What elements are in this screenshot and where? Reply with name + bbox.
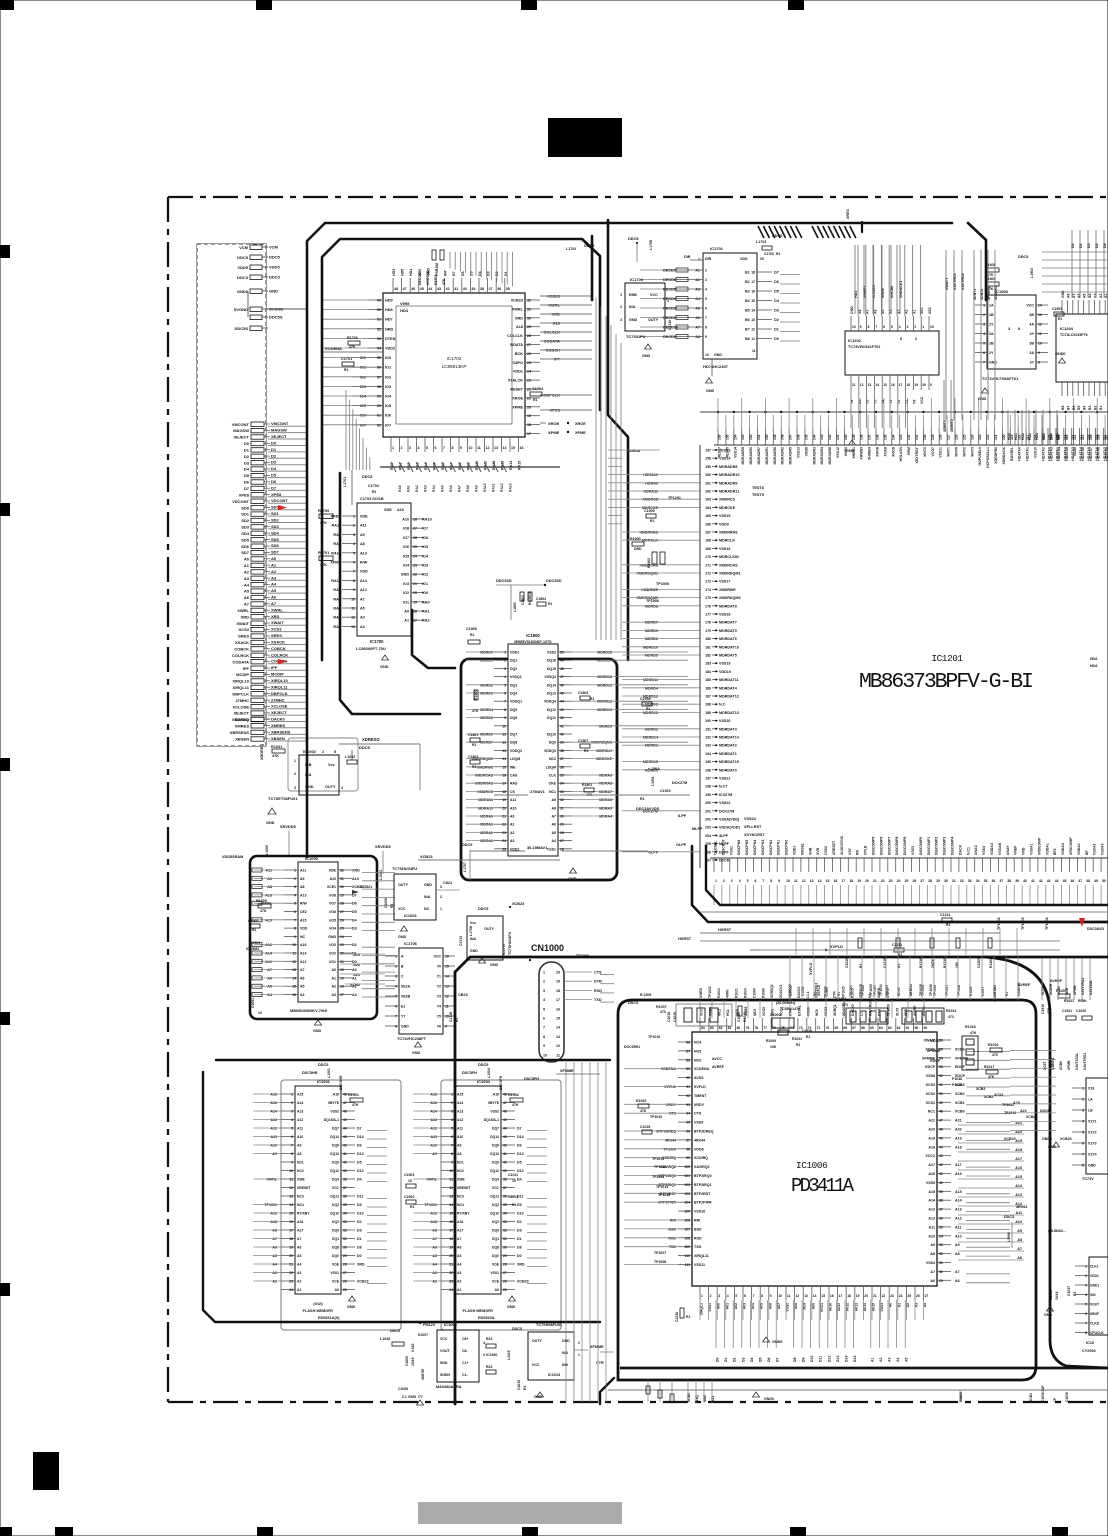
svg-text:XDE: XDE xyxy=(384,508,392,512)
svg-text:IO7: IO7 xyxy=(385,423,391,427)
svg-text:11: 11 xyxy=(351,607,355,611)
connector pin IPF xyxy=(243,665,306,671)
svg-text:HD2: HD2 xyxy=(1021,433,1025,440)
svg-text:A18: A18 xyxy=(1015,1148,1022,1152)
svg-text:XPLLRST: XPLLRST xyxy=(744,825,762,829)
svg-text:124: 124 xyxy=(970,434,974,440)
svg-text:VDD5: VDD5 xyxy=(237,265,248,270)
svg-text:XPME: XPME xyxy=(548,430,560,435)
svg-text:R1: R1 xyxy=(806,1035,810,1039)
svg-text:GND: GND xyxy=(850,306,854,314)
svg-text:I/O1: I/O1 xyxy=(329,960,336,964)
svg-text:18: 18 xyxy=(340,985,344,989)
svg-text:A2: A2 xyxy=(271,569,277,574)
svg-text:R1: R1 xyxy=(1073,1292,1077,1296)
svg-text:C1921: C1921 xyxy=(1062,1009,1072,1013)
svg-text:XCS3: XCS3 xyxy=(271,627,282,632)
svg-text:50: 50 xyxy=(560,651,564,655)
C1251 capacitor xyxy=(1052,307,1064,321)
svg-text:43: 43 xyxy=(560,708,564,712)
svg-text:A7: A7 xyxy=(297,1237,301,1241)
svg-text:MLPF: MLPF xyxy=(692,827,703,831)
svg-text:HOPU5EL0: HOPU5EL0 xyxy=(978,447,982,466)
svg-text:XCE: XCE xyxy=(492,1280,500,1284)
connector pin XIRQL10 xyxy=(232,678,306,684)
svg-text:A3: A3 xyxy=(352,993,357,997)
svg-text:47K: 47K xyxy=(512,1103,519,1107)
svg-text:35: 35 xyxy=(343,1203,347,1207)
svg-text:42: 42 xyxy=(503,1144,507,1148)
svg-text:2: 2 xyxy=(723,879,725,883)
svg-text:21: 21 xyxy=(449,1263,453,1267)
C1230 capacitor xyxy=(675,1308,690,1322)
svg-text:A6: A6 xyxy=(457,1246,461,1250)
svg-text:TP1204: TP1204 xyxy=(1045,917,1049,930)
C1801 capacitor xyxy=(468,733,480,747)
bus outline IC1702 right xyxy=(592,220,628,660)
svg-text:A9: A9 xyxy=(300,877,305,881)
svg-text:VCC: VCC xyxy=(440,1337,448,1341)
svg-text:MDRA6: MDRA6 xyxy=(599,798,612,802)
bus outline IC1700 drop xyxy=(340,473,455,714)
svg-text:DQ2: DQ2 xyxy=(492,1220,499,1224)
svg-text:195: 195 xyxy=(705,760,711,764)
svg-text:A13: A13 xyxy=(300,893,306,897)
svg-text:4: 4 xyxy=(543,998,545,1002)
svg-text:MDRA4: MDRA4 xyxy=(599,815,612,819)
crystal X1000 xyxy=(766,1001,812,1049)
svg-text:GND0: GND0 xyxy=(772,1340,783,1344)
svg-text:11: 11 xyxy=(556,1053,560,1057)
svg-text:A10: A10 xyxy=(297,1135,303,1139)
svg-text:A14: A14 xyxy=(928,1199,935,1203)
svg-text:29: 29 xyxy=(527,325,531,329)
svg-text:GND0: GND0 xyxy=(764,1397,774,1401)
svg-text:XFMME: XFMME xyxy=(560,1069,574,1073)
svg-text:15: 15 xyxy=(502,765,506,769)
svg-text:5: 5 xyxy=(334,750,336,754)
svg-text:7: 7 xyxy=(443,446,445,450)
svg-text:R1009: R1009 xyxy=(766,1039,776,1043)
svg-text:DISCOMP2: DISCOMP2 xyxy=(935,837,939,855)
svg-text:GND: GND xyxy=(401,573,410,577)
svg-text:118: 118 xyxy=(1071,435,1075,440)
svg-text:20: 20 xyxy=(865,879,869,883)
svg-text:A0: A0 xyxy=(360,616,365,620)
svg-text:49: 49 xyxy=(939,1101,943,1105)
svg-text:51: 51 xyxy=(377,318,381,322)
svg-text:29: 29 xyxy=(560,823,564,827)
svg-text:B4: B4 xyxy=(745,299,750,303)
svg-text:8: 8 xyxy=(900,337,902,341)
svg-text:25: 25 xyxy=(905,879,909,883)
svg-text:L1004: L1004 xyxy=(487,1068,491,1078)
svg-text:IC1700: IC1700 xyxy=(370,639,384,644)
svg-text:XDRQ1: XDRQ1 xyxy=(833,1004,837,1016)
svg-text:GND: GND xyxy=(846,449,855,453)
svg-text:42: 42 xyxy=(446,287,450,291)
svg-text:TMENT: TMENT xyxy=(694,1094,707,1098)
svg-text:XAV1SGL: XAV1SGL xyxy=(1089,980,1093,995)
svg-text:MDRA9: MDRA9 xyxy=(599,774,612,778)
svg-text:DQ15/A-1: DQ15/A-1 xyxy=(324,1118,339,1122)
svg-text:187: 187 xyxy=(705,695,711,699)
wire bundle top center xyxy=(854,245,903,314)
svg-text:IO4: IO4 xyxy=(385,395,392,399)
svg-text:XIDNT2: XIDNT2 xyxy=(950,419,954,432)
svg-text:45: 45 xyxy=(503,1118,507,1122)
connector pin D6 xyxy=(244,479,306,485)
svg-text:17: 17 xyxy=(340,993,344,997)
svg-text:VSS2: VSS2 xyxy=(824,846,828,855)
net XCB20 xyxy=(1004,1137,1052,1141)
svg-text:71: 71 xyxy=(817,1026,821,1030)
svg-text:A19: A19 xyxy=(270,1212,277,1216)
svg-text:39: 39 xyxy=(471,287,475,291)
svg-text:L1707: L1707 xyxy=(463,862,467,872)
svg-text:R1016: R1016 xyxy=(988,1043,998,1047)
svg-text:12: 12 xyxy=(502,741,506,745)
svg-text:10: 10 xyxy=(469,446,473,450)
svg-text:166: 166 xyxy=(705,522,711,526)
svg-text:TP1027: TP1027 xyxy=(873,985,877,996)
svg-text:XIN: XIN xyxy=(1090,1293,1096,1297)
connector pin MCDIP xyxy=(236,672,306,678)
svg-text:19: 19 xyxy=(340,976,344,980)
svg-text:A19: A19 xyxy=(1015,1139,1022,1143)
svg-text:MDRA7: MDRA7 xyxy=(599,790,612,794)
svg-text:A6: A6 xyxy=(955,1279,960,1283)
svg-text:24: 24 xyxy=(413,554,417,558)
wires HD bus xyxy=(1007,410,1060,445)
svg-text:16: 16 xyxy=(502,774,506,778)
svg-text:VDCONT: VDCONT xyxy=(232,499,249,504)
svg-text:VDD8: VDD8 xyxy=(804,447,808,456)
svg-text:A3: A3 xyxy=(432,1271,437,1275)
TP1202 label xyxy=(997,917,1049,930)
svg-text:202: 202 xyxy=(705,818,711,822)
svg-text:XCS3: XCS3 xyxy=(926,1083,935,1087)
svg-text:XFMME: XFMME xyxy=(590,1345,604,1349)
svg-text:13: 13 xyxy=(556,1035,560,1039)
svg-text:DQ8: DQ8 xyxy=(332,1246,339,1250)
svg-text:XIRQL11: XIRQL11 xyxy=(271,684,288,689)
svg-text:2: 2 xyxy=(705,269,707,273)
svg-text:RA3: RA3 xyxy=(424,485,428,492)
svg-text:41: 41 xyxy=(939,1172,943,1176)
svg-text:47: 47 xyxy=(1078,879,1082,883)
svg-text:DDC5FH: DDC5FH xyxy=(499,1075,503,1090)
black title block xyxy=(548,118,622,157)
svg-text:MDRCLK: MDRCLK xyxy=(719,539,735,543)
svg-text:DQ5: DQ5 xyxy=(510,708,517,712)
svg-text:46: 46 xyxy=(560,683,564,687)
wire bundle far right top xyxy=(1071,230,1107,298)
svg-text:DTR: DTR xyxy=(594,980,602,984)
svg-text:INA: INA xyxy=(470,937,477,941)
svg-text:VDDA4: VDDA4 xyxy=(1061,843,1065,855)
svg-text:DISCPN3: DISCPN3 xyxy=(761,840,765,855)
svg-text:TP1010: TP1010 xyxy=(648,1035,660,1039)
svg-text:XCB22: XCB22 xyxy=(357,1280,369,1284)
svg-text:173: 173 xyxy=(705,580,711,584)
svg-text:150: 150 xyxy=(765,434,769,440)
svg-text:7: 7 xyxy=(705,316,707,320)
svg-text:DVCD: DVCD xyxy=(719,859,730,863)
svg-text:MDRCLK: MDRCLK xyxy=(596,749,612,753)
svg-text:22: 22 xyxy=(882,1294,886,1298)
svg-text:DQ0: DQ0 xyxy=(492,1254,499,1258)
svg-text:D6: D6 xyxy=(271,479,277,484)
svg-text:148: 148 xyxy=(781,434,785,440)
svg-text:5: 5 xyxy=(1082,1131,1084,1135)
IC1704 TC7S02FU gate xyxy=(620,236,679,358)
svg-text:B2: B2 xyxy=(1093,406,1097,410)
vertical drop x862 xyxy=(861,222,863,232)
svg-text:A5: A5 xyxy=(457,1254,461,1258)
svg-text:27: 27 xyxy=(560,839,564,843)
R1701 resistor xyxy=(318,551,333,567)
svg-text:RA6: RA6 xyxy=(449,485,453,492)
svg-text:61: 61 xyxy=(377,414,381,418)
svg-text:IO1: IO1 xyxy=(360,366,366,370)
svg-text:D1: D1 xyxy=(1079,243,1083,248)
L1908 inductor xyxy=(1007,1222,1012,1248)
svg-text:MDRCLKIN: MDRCLKIN xyxy=(719,555,739,559)
svg-text:138: 138 xyxy=(860,434,864,440)
svg-text:12: 12 xyxy=(802,879,806,883)
svg-text:6: 6 xyxy=(744,1294,746,1298)
svg-text:9: 9 xyxy=(504,716,506,720)
svg-text:XRSCOMP: XRSCOMP xyxy=(1069,837,1073,855)
svg-text:R1: R1 xyxy=(650,519,654,523)
svg-text:DQ0: DQ0 xyxy=(332,1254,339,1258)
svg-text:SD5: SD5 xyxy=(241,537,250,542)
svg-text:E1: E1 xyxy=(401,1005,405,1009)
svg-text:9: 9 xyxy=(294,935,296,939)
svg-text:A7: A7 xyxy=(457,1237,461,1241)
svg-text:16: 16 xyxy=(751,290,755,294)
IC1010 CY2292 body xyxy=(1041,1229,1108,1402)
svg-text:MDRD7: MDRD7 xyxy=(645,621,658,625)
svg-text:GND: GND xyxy=(424,883,432,887)
svg-text:A15: A15 xyxy=(457,1093,463,1097)
svg-text:R1700: R1700 xyxy=(318,509,329,513)
svg-text:A2: A2 xyxy=(432,1280,437,1284)
svg-text:TP1019: TP1019 xyxy=(993,985,997,996)
svg-text:XCS1: XCS1 xyxy=(926,1101,935,1105)
svg-text:BCK: BCK xyxy=(515,352,523,356)
svg-text:40: 40 xyxy=(463,287,467,291)
svg-text:IO7: IO7 xyxy=(403,536,409,540)
svg-text:D9: D9 xyxy=(517,1229,522,1233)
svg-text:IO2: IO2 xyxy=(403,591,409,595)
connector pin XPE8 xyxy=(239,492,306,498)
svg-text:3: 3 xyxy=(1085,1284,1087,1288)
svg-text:OUTY: OUTY xyxy=(484,927,494,931)
svg-text:21: 21 xyxy=(527,396,531,400)
svg-text:A9: A9 xyxy=(930,1243,935,1247)
svg-text:NC4: NC4 xyxy=(457,1203,464,1207)
svg-text:A17: A17 xyxy=(297,1229,303,1233)
svg-text:186: 186 xyxy=(705,686,711,690)
svg-text:MDRD10: MDRD10 xyxy=(597,708,612,712)
svg-text:DISCPN0: DISCPN0 xyxy=(785,840,789,855)
svg-text:VDD9: VDD9 xyxy=(719,522,729,526)
svg-text:DQ7: DQ7 xyxy=(332,1127,339,1131)
svg-text:27MAV1: 27MAV1 xyxy=(530,789,546,794)
svg-text:10: 10 xyxy=(258,1011,262,1015)
svg-text:MDRCKE: MDRCKE xyxy=(719,506,736,510)
wire bundle right mid vertical xyxy=(1041,958,1093,1000)
svg-text:C1703 SO/1B: C1703 SO/1B xyxy=(360,497,384,501)
svg-text:XWAIT: XWAIT xyxy=(236,621,249,626)
svg-text:44: 44 xyxy=(503,1127,507,1131)
svg-text:CLK: CLK xyxy=(549,774,557,778)
svg-text:D2: D2 xyxy=(357,1220,362,1224)
svg-text:97: 97 xyxy=(686,1138,690,1142)
svg-text:5: 5 xyxy=(291,1127,293,1131)
svg-text:D3: D3 xyxy=(352,927,357,931)
svg-text:RXD: RXD xyxy=(668,1236,676,1240)
svg-text:38: 38 xyxy=(503,1178,507,1182)
svg-text:GND0: GND0 xyxy=(1042,1137,1052,1141)
svg-text:15: 15 xyxy=(445,965,449,969)
svg-text:RY/XBY: RY/XBY xyxy=(297,1212,310,1216)
svg-text:XHB: XHB xyxy=(808,847,812,855)
svg-text:17: 17 xyxy=(527,432,531,436)
svg-text:3B: 3B xyxy=(1029,342,1034,346)
svg-text:N.C: N.C xyxy=(719,703,726,707)
svg-text:GND: GND xyxy=(714,353,722,357)
svg-text:HXRST: HXRST xyxy=(718,927,732,932)
svg-text:1: 1 xyxy=(440,907,442,911)
svg-text:16: 16 xyxy=(289,1220,293,1224)
svg-text:VSSA(VDD): VSSA(VDD) xyxy=(719,818,740,822)
svg-text:19: 19 xyxy=(556,980,560,984)
svg-text:MDRA1: MDRA1 xyxy=(480,823,493,827)
svg-text:D2: D2 xyxy=(271,453,277,458)
svg-text:XAVIRQ2: XAVIRQ2 xyxy=(694,1165,710,1169)
svg-text:XCE1: XCE1 xyxy=(327,885,336,889)
flash memory IC1004 ring xyxy=(441,1080,561,1330)
svg-text:1B: 1B xyxy=(989,313,994,317)
svg-text:RA2: RA2 xyxy=(422,619,430,623)
svg-text:D5: D5 xyxy=(517,1161,522,1165)
svg-text:102: 102 xyxy=(684,1183,690,1187)
svg-text:DDC5FH: DDC5FH xyxy=(524,1077,539,1081)
IC1000 gnd xyxy=(313,1020,322,1033)
svg-text:XRDY: XRDY xyxy=(666,1103,677,1107)
svg-text:4: 4 xyxy=(739,879,741,883)
svg-text:22: 22 xyxy=(502,823,506,827)
gate IC1013 TC7SH08FU xyxy=(507,1323,614,1399)
svg-text:VRD: VRD xyxy=(1022,847,1026,855)
svg-text:XCB20: XCB20 xyxy=(517,1280,529,1284)
svg-text:BTP2DREQ: BTP2DREQ xyxy=(694,1130,714,1134)
svg-text:A15: A15 xyxy=(1015,1175,1022,1179)
svg-text:GND: GND xyxy=(706,389,715,393)
svg-text:60: 60 xyxy=(377,404,381,408)
svg-text:XRESET: XRESET xyxy=(457,1186,471,1190)
svg-text:TP1018: TP1018 xyxy=(957,985,961,996)
svg-text:DECD0: DECD0 xyxy=(663,335,676,339)
svg-text:DDC3: DDC3 xyxy=(237,275,249,280)
wires down from IC1702 xyxy=(596,298,621,640)
net 27MAV1 xyxy=(494,789,690,795)
svg-text:D12: D12 xyxy=(827,1356,831,1362)
svg-text:131: 131 xyxy=(915,434,919,440)
svg-text:R4: R4 xyxy=(584,749,588,753)
svg-text:34: 34 xyxy=(939,1234,943,1238)
svg-text:XBSEN: XBSEN xyxy=(235,737,249,742)
svg-text:24: 24 xyxy=(899,1294,903,1298)
svg-text:XWATT: XWATT xyxy=(945,277,949,290)
svg-text:NC2: NC2 xyxy=(457,1169,464,1173)
svg-text:A11: A11 xyxy=(265,869,272,873)
svg-text:2: 2 xyxy=(1085,1274,1087,1278)
svg-text:48: 48 xyxy=(343,1093,347,1097)
svg-text:475: 475 xyxy=(992,1053,998,1057)
svg-text:COLCLK: COLCLK xyxy=(507,334,523,338)
svg-text:CTR: CTR xyxy=(596,1361,604,1365)
IC1202 gnd xyxy=(846,440,856,453)
svg-text:Y9: Y9 xyxy=(912,400,916,404)
svg-text:14: 14 xyxy=(449,1203,453,1207)
black mark inner xyxy=(216,372,230,391)
R1016 resistor xyxy=(988,1043,1002,1057)
svg-text:10: 10 xyxy=(705,353,709,357)
svg-text:2A: 2A xyxy=(989,332,994,336)
svg-text:18: 18 xyxy=(289,1237,293,1241)
svg-text:IC1707: IC1707 xyxy=(502,943,506,955)
svg-text:32: 32 xyxy=(503,1229,507,1233)
svg-text:B6: B6 xyxy=(1072,406,1076,410)
svg-text:184: 184 xyxy=(705,670,711,674)
svg-text:23: 23 xyxy=(889,879,893,883)
svg-text:LDQM: LDQM xyxy=(510,757,520,761)
svg-text:5: 5 xyxy=(426,446,428,450)
connector pin VMCONT xyxy=(232,421,306,427)
svg-text:COBCK: COBCK xyxy=(271,646,286,651)
svg-text:A10: A10 xyxy=(510,806,516,810)
svg-text:GND: GND xyxy=(328,935,336,939)
svg-text:INA: INA xyxy=(562,1351,569,1355)
svg-text:2: 2 xyxy=(440,895,442,899)
svg-text:A7: A7 xyxy=(267,968,272,972)
svg-text:VSSAB: VSSAB xyxy=(998,842,1002,855)
svg-text:A3: A3 xyxy=(271,575,277,580)
svg-text:38: 38 xyxy=(343,1178,347,1182)
svg-text:6: 6 xyxy=(435,446,437,450)
svg-text:45: 45 xyxy=(1063,879,1067,883)
svg-text:7: 7 xyxy=(1085,1322,1087,1326)
svg-text:XPE8: XPE8 xyxy=(239,492,250,497)
svg-text:RA0: RA0 xyxy=(422,600,430,604)
svg-text:47K: 47K xyxy=(349,345,356,349)
svg-text:3: 3 xyxy=(731,879,733,883)
svg-text:13: 13 xyxy=(868,383,872,387)
svg-text:A14: A14 xyxy=(360,579,368,583)
svg-text:DDC5S: DDC5S xyxy=(234,326,248,331)
svg-text:DQ1: DQ1 xyxy=(332,1237,339,1241)
svg-text:RA11: RA11 xyxy=(484,461,488,470)
svg-text:4: 4 xyxy=(1082,1120,1084,1124)
svg-text:XDNT1: XDNT1 xyxy=(973,289,977,300)
svg-text:R1: R1 xyxy=(344,368,349,372)
svg-text:A2: A2 xyxy=(272,1280,277,1284)
connector pin VDCONT xyxy=(232,498,306,504)
